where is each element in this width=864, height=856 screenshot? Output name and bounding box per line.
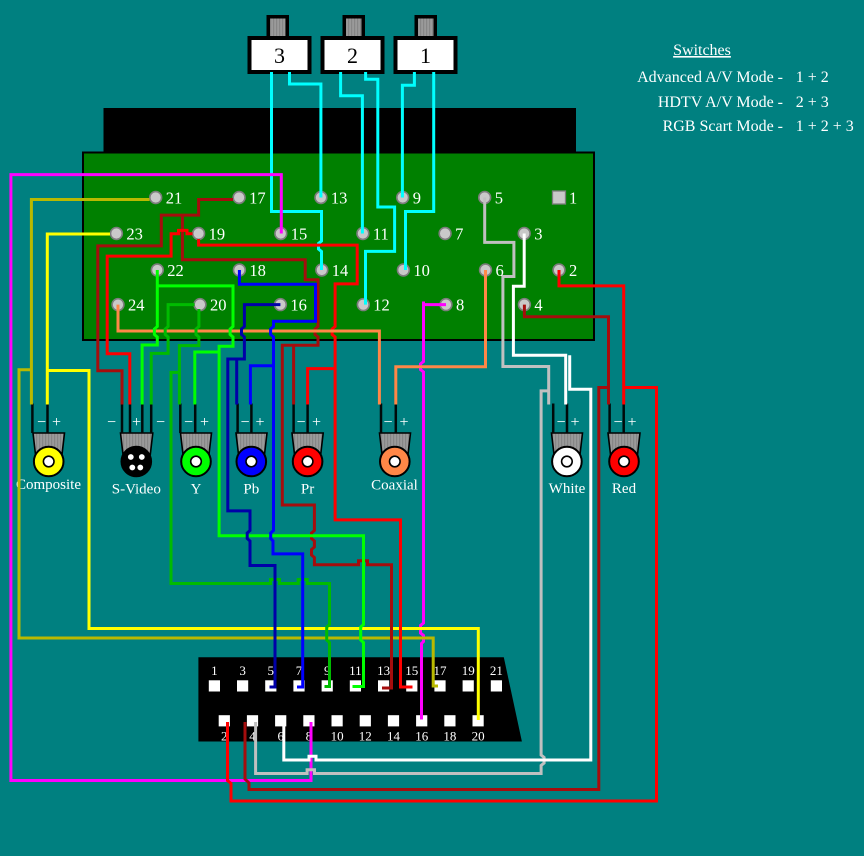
SCART pin 11 pad (350, 680, 361, 691)
wire gray branch to SCART4 (256, 391, 549, 774)
S-Video connector (121, 433, 153, 455)
svg-text:20: 20 (472, 729, 485, 744)
white audio connector (552, 433, 583, 455)
PCB pad 5 (479, 192, 491, 204)
PCB pad 1 (square) (553, 191, 566, 204)
PCB pad 21 (150, 192, 162, 204)
svg-text:10: 10 (331, 729, 344, 744)
PCB pad 4 (519, 299, 531, 311)
svg-text:13: 13 (331, 189, 348, 208)
wire orange pad24 to coaxial minus (118, 305, 379, 405)
svg-text:2: 2 (569, 261, 577, 280)
PCB pad 13 (315, 192, 327, 204)
svg-text:+: + (200, 414, 209, 431)
wire red branch to SCART15 (335, 369, 412, 687)
wire red pad19 branch to Pr plus (199, 239, 358, 405)
svg-text:HDTV A/V Mode -: HDTV A/V Mode - (658, 94, 783, 111)
svg-text:1: 1 (420, 43, 431, 68)
svg-text:+: + (570, 414, 579, 431)
wire navy branch to SCART5 (228, 359, 275, 687)
svg-text:+: + (627, 414, 636, 431)
SCART pin 16 pad (416, 715, 427, 726)
wire cyan switch2-left to pad11 (341, 72, 363, 234)
wire lime pad22 to S-Video lead3 (142, 270, 157, 405)
svg-text:Pb: Pb (243, 482, 259, 498)
wire cyan switch3-right to pad13 (290, 72, 321, 198)
SCART pin 8 pad (303, 715, 314, 726)
wire blue pad18 to Pb plus (239, 270, 315, 405)
wire red branch to SCART2 (228, 388, 657, 802)
svg-text:20: 20 (210, 296, 227, 315)
svg-text:−: − (556, 414, 565, 431)
switch S2 (343, 15, 366, 41)
SCART pin 7 pad (293, 680, 304, 691)
PCB pad 8 (440, 299, 452, 311)
SCART pin 5 pad (265, 680, 276, 691)
console connector black bar (104, 108, 577, 153)
svg-text:Coaxial: Coaxial (371, 478, 418, 494)
PCB pad 20 (194, 299, 206, 311)
svg-text:5: 5 (268, 663, 275, 678)
svg-text:19: 19 (209, 225, 226, 244)
svg-text:−: − (184, 414, 193, 431)
wire olive branch to SCART17 (19, 370, 438, 686)
PCB pad 16 (275, 299, 287, 311)
Y connector (181, 433, 212, 455)
svg-text:−: − (383, 414, 392, 431)
PCB pad 17 (233, 192, 245, 204)
svg-text:Y: Y (191, 482, 202, 498)
svg-text:4: 4 (534, 296, 542, 315)
svg-text:10: 10 (413, 261, 430, 280)
svg-text:Switches: Switches (673, 42, 731, 59)
SCART pin 1 pad (209, 680, 220, 691)
svg-text:17: 17 (249, 189, 266, 208)
wire gray pad5 to white-connector minus (485, 198, 549, 405)
svg-text:13: 13 (377, 663, 390, 678)
PCB pad 6 (480, 264, 492, 276)
wire green pad20 to Y minus (179, 309, 199, 405)
PCB pad 18 (234, 264, 246, 276)
PCB pad 7 (439, 228, 451, 240)
SCART pin 10 pad (332, 715, 343, 726)
PCB pad 10 (398, 264, 410, 276)
svg-text:12: 12 (359, 729, 372, 744)
svg-text:−: − (156, 414, 165, 431)
wire maroon pad4 to red-connector minus (524, 305, 608, 405)
svg-text:7: 7 (455, 225, 463, 244)
svg-text:11: 11 (373, 225, 389, 244)
wire lime pad22 branch to SCART11 (157, 286, 363, 687)
SCART pin 13 pad (378, 680, 389, 691)
svg-text:18: 18 (249, 261, 266, 280)
svg-text:15: 15 (405, 663, 418, 678)
svg-text:−: − (107, 414, 116, 431)
svg-text:1 + 2 + 3: 1 + 2 + 3 (796, 118, 854, 135)
svg-text:3: 3 (239, 663, 246, 678)
svg-text:11: 11 (349, 663, 362, 678)
switch S1 (415, 15, 438, 41)
svg-text:Composite: Composite (16, 477, 81, 493)
PCB pad 11 (357, 228, 369, 240)
SCART pin 6 pad (275, 715, 286, 726)
svg-text:RGB Scart Mode -: RGB Scart Mode - (663, 118, 783, 135)
svg-text:17: 17 (434, 663, 448, 678)
wire red pad19 to S-Video lead2 (107, 230, 192, 404)
PCB pad 22 (151, 264, 163, 276)
wire magenta pad15 to SCART8 (11, 175, 311, 781)
Pr connector (292, 433, 323, 455)
SCART pin 17 pad (434, 680, 445, 691)
svg-text:3: 3 (274, 43, 285, 68)
wire cyan switch3-left to pad14 (272, 72, 322, 270)
svg-text:+: + (52, 414, 61, 431)
svg-text:14: 14 (332, 261, 349, 280)
svg-text:1: 1 (569, 189, 577, 208)
svg-text:Advanced A/V Mode -: Advanced A/V Mode - (637, 69, 783, 86)
SCART pin 2 pad (219, 715, 230, 726)
svg-text:16: 16 (415, 729, 429, 744)
PCB pad 2 (553, 264, 565, 276)
wire white pad3 to white-connector plus (513, 234, 565, 405)
svg-text:18: 18 (443, 729, 456, 744)
wire green branch to SCART9 (171, 372, 330, 686)
SCART pin 3 pad (237, 680, 248, 691)
wire maroon branch to SCART4 (245, 388, 609, 790)
svg-text:1: 1 (211, 663, 218, 678)
svg-text:12: 12 (373, 296, 390, 315)
SCART pin 12 pad (360, 715, 371, 726)
svg-text:9: 9 (413, 189, 421, 208)
wire maroon branch to SCART13 (182, 215, 391, 688)
wire cyan switch1-left to pad9 (402, 72, 414, 198)
SCART pin 9 pad (322, 680, 333, 691)
wire yellow branch to SCART20 (47, 371, 478, 721)
svg-text:S-Video: S-Video (112, 482, 161, 498)
SCART pin 20 pad (473, 715, 484, 726)
svg-text:16: 16 (290, 296, 307, 315)
svg-text:+: + (399, 414, 408, 431)
svg-text:5: 5 (495, 189, 503, 208)
svg-text:19: 19 (462, 663, 475, 678)
Pb connector (236, 433, 267, 455)
wire cyan switch2-right to pad12 (366, 72, 395, 305)
SCART pin 21 pad (491, 680, 502, 691)
svg-text:1 + 2: 1 + 2 (796, 69, 829, 86)
wire maroon pad17 to S-Video lead1 (98, 200, 233, 405)
svg-text:2: 2 (347, 43, 358, 68)
svg-text:23: 23 (126, 225, 142, 244)
PCB pad 19 (193, 228, 205, 240)
svg-text:+: + (255, 414, 264, 431)
svg-text:24: 24 (128, 296, 145, 315)
red audio connector (608, 433, 640, 455)
svg-text:+: + (312, 414, 321, 431)
PCB pad 15 (275, 228, 287, 240)
wire maroon branch to Pr minus (292, 345, 295, 404)
wire magenta pad8 to SCART16 (421, 302, 447, 720)
composite connector (33, 433, 65, 455)
svg-text:Pr: Pr (301, 482, 314, 498)
svg-text:22: 22 (167, 261, 184, 280)
PCB pad 23 (111, 228, 123, 240)
svg-text:21: 21 (166, 189, 183, 208)
svg-text:21: 21 (490, 663, 503, 678)
svg-text:8: 8 (456, 296, 464, 315)
svg-text:14: 14 (387, 729, 401, 744)
SCART pin 19 pad (463, 680, 474, 691)
SCART pin 15 pad (406, 680, 417, 691)
wire olive pad21 to composite minus (31, 200, 149, 405)
wire cyan switch1-right to pad10 (406, 72, 434, 270)
svg-text:Red: Red (612, 481, 637, 497)
SCART connector body (198, 657, 522, 741)
SCART pin 4 pad (247, 715, 258, 726)
wire white branch to SCART6 (284, 355, 591, 760)
wire orange pad6 to coaxial plus (396, 270, 486, 405)
svg-text:6: 6 (496, 261, 504, 280)
PCB pad 14 (316, 264, 328, 276)
switch S3 (267, 15, 290, 41)
svg-text:−: − (240, 414, 249, 431)
wire red pad2 to red-connector plus (559, 270, 624, 405)
svg-text:White: White (549, 481, 586, 497)
svg-text:−: − (37, 414, 46, 431)
svg-text:−: − (296, 414, 305, 431)
SCART pin 18 pad (444, 715, 455, 726)
PCB pad 24 (112, 299, 124, 311)
PCB pad 12 (357, 299, 369, 311)
coaxial connector (380, 433, 411, 455)
wire blue branch to SCART7 (271, 366, 303, 687)
svg-text:2 + 3: 2 + 3 (796, 94, 829, 111)
SCART pin 14 pad (388, 715, 399, 726)
console PCB board (83, 153, 594, 341)
wire lime branch to Y plus (195, 352, 219, 405)
wire green pad20 to S-Video lead4 (151, 305, 194, 405)
PCB pad 3 (518, 228, 530, 240)
svg-text:+: + (132, 414, 141, 431)
svg-text:−: − (613, 414, 622, 431)
svg-text:3: 3 (534, 225, 542, 244)
wire yellow pad23 to composite plus (47, 234, 110, 405)
svg-text:15: 15 (291, 225, 308, 244)
wire navy pad16 to Pb minus (237, 305, 281, 405)
PCB pad 9 (397, 192, 409, 204)
